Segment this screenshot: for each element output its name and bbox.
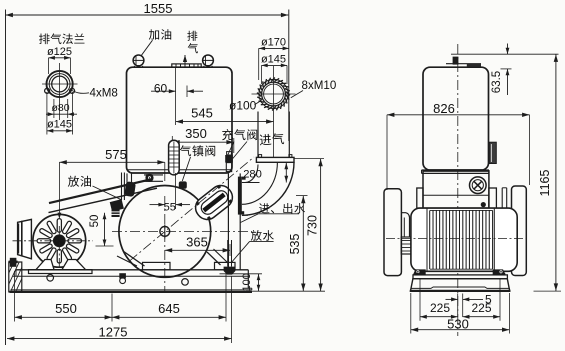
motor centreline vertical	[58, 226, 60, 269]
elbow flange bolts	[259, 155, 262, 158]
dim 365 right extension	[229, 244, 231, 256]
svg-text:8xM10: 8xM10	[302, 79, 337, 92]
drain pipe	[227, 240, 229, 267]
pedestal inner line	[411, 287, 510, 288]
dim o80 extensions	[53, 99, 55, 118]
svg-text:60: 60	[154, 82, 168, 96]
dim 350 line	[172, 141, 234, 143]
spout inner flange	[199, 188, 231, 217]
dim 545 line	[176, 121, 274, 123]
side right plate	[489, 188, 497, 208]
spout dark slot	[202, 193, 225, 213]
svg-text:645: 645	[158, 301, 180, 316]
dim o145 line	[47, 130, 73, 132]
side tank bottom flange	[422, 169, 490, 171]
side centreline	[457, 44, 459, 336]
motor centreline horizontal	[13, 240, 94, 242]
svg-text:63.5: 63.5	[491, 71, 503, 93]
motor hub	[53, 235, 65, 247]
inlet flange crosshair	[273, 66, 275, 157]
dim 55 line	[150, 204, 165, 206]
dim 826 right extension	[529, 115, 531, 185]
dim o170 line	[259, 47, 289, 49]
svg-text:ø145: ø145	[261, 54, 286, 66]
side right bracket2	[501, 188, 503, 210]
ext line tank exhaust centre	[175, 67, 177, 125]
flange F1 middle circle	[49, 74, 70, 95]
side pump housing	[423, 171, 489, 208]
base right edge	[247, 270, 249, 288]
svg-text:826: 826	[433, 101, 455, 116]
leader o100	[255, 100, 262, 105]
svg-text:ø100: ø100	[229, 99, 257, 113]
drum vertical centreline	[164, 196, 166, 291]
oil drain outlet (striped)	[112, 209, 120, 217]
pump drum hub	[160, 227, 170, 237]
base hole left	[47, 275, 54, 282]
motor foot right	[62, 260, 86, 270]
ext line 225 right	[499, 279, 501, 321]
svg-text:350: 350	[185, 126, 207, 141]
svg-text:365: 365	[186, 234, 208, 249]
dim 280 line	[285, 162, 287, 182]
side motor centreline	[386, 238, 527, 240]
base hole right	[182, 279, 189, 286]
motor terminal block	[18, 219, 32, 258]
dim 575 line	[59, 161, 164, 163]
leaders chongqifa	[228, 142, 234, 155]
oil pipe fitting under tank	[144, 174, 163, 176]
svg-text:55: 55	[164, 201, 176, 213]
pump inlet port flange	[238, 177, 242, 215]
dim 63.5 line	[507, 44, 509, 55]
leader qizhenfa	[182, 157, 190, 181]
side tank body	[423, 67, 489, 170]
ext line pedestal bottom right	[534, 290, 562, 292]
label fangyou (drain oil)	[68, 176, 91, 187]
dim 575 right extension	[164, 162, 166, 181]
label paiqifalan (exhaust flange)	[39, 33, 85, 44]
label jin-chushui (water in/out)	[259, 203, 305, 214]
dim o170 left extension	[258, 48, 260, 80]
oil filler cap left	[133, 55, 144, 66]
dim o145b extensions	[261, 65, 263, 84]
svg-text:535: 535	[288, 234, 302, 255]
label paiqi (exhaust) vertical	[187, 31, 197, 41]
base bolt centre	[119, 273, 126, 278]
flange F1 bore circle	[52, 76, 68, 92]
dim 530 line	[411, 329, 510, 331]
dim o80 line	[46, 113, 77, 115]
oil tank body	[127, 67, 233, 173]
dim o125 extensions	[48, 58, 50, 74]
drain cock	[224, 267, 236, 275]
svg-text:550: 550	[55, 301, 77, 316]
belt guard hinge	[146, 174, 153, 181]
anchor bolt head	[10, 258, 17, 267]
leader jiayou	[141, 40, 153, 56]
dim 730 line	[320, 159, 322, 292]
dim 826 left extension	[386, 115, 388, 190]
dim 826 line	[387, 114, 530, 116]
leader 8xM10	[291, 91, 303, 98]
dim 1275 line	[7, 338, 232, 340]
ext line elbow top right	[294, 158, 324, 160]
svg-text:50: 50	[89, 215, 101, 228]
dim 60 line	[151, 90, 176, 92]
flange F1 side lugs	[45, 88, 50, 93]
pump drum circle	[119, 186, 211, 278]
inlet flange bolt ring	[259, 79, 288, 108]
leader 4xM8	[71, 90, 90, 94]
oil drain pipe lines	[121, 173, 123, 201]
ext line 550 left	[14, 271, 16, 322]
ext line base bottom right	[246, 290, 325, 292]
ext line 225 left	[419, 279, 421, 321]
side motor body	[411, 208, 517, 271]
svg-text:225: 225	[471, 301, 491, 315]
dim 1165 line	[555, 54, 557, 291]
spout bolts	[228, 199, 232, 203]
pedestal base	[411, 279, 510, 291]
ext line tank centre into drum	[175, 173, 177, 209]
belt guard lower line	[49, 188, 158, 212]
belt guard upper line	[49, 179, 152, 203]
svg-text:ø125: ø125	[47, 46, 72, 58]
dim 225 right line	[463, 316, 500, 318]
dim 50 bottom extension	[96, 245, 114, 247]
ext line base step	[220, 273, 263, 275]
dim o125 line	[49, 57, 71, 59]
leader fangshui	[250, 240, 274, 242]
side left plate	[417, 188, 423, 208]
svg-text:545: 545	[191, 106, 213, 121]
charge valve body	[225, 155, 233, 163]
dim 100 line	[258, 274, 260, 291]
extension line right of 1555/inlet flange	[288, 10, 290, 142]
label fangshui (drain water)	[251, 230, 274, 241]
label chongqifa (charge valve)	[222, 129, 257, 140]
inlet flange inner circles	[262, 82, 286, 106]
elbow horizontal pipe lines	[242, 182, 260, 184]
pedestal bottom line	[410, 290, 511, 292]
side mount plate	[413, 275, 507, 279]
pump support pad left	[143, 262, 171, 269]
base left edge	[15, 270, 17, 277]
inlet stack walls	[257, 112, 259, 158]
tank support legs left	[126, 173, 128, 185]
oil filler cap right	[203, 55, 214, 66]
dim 63.5 extension	[501, 68, 512, 70]
dim o145b line	[262, 64, 288, 66]
ext line pump centre below	[457, 294, 459, 318]
exhaust direction arrow	[184, 55, 186, 64]
spout outer flange	[191, 181, 237, 224]
pump support strut right	[207, 252, 221, 265]
flange F1 crosshair	[59, 63, 61, 120]
pump support pad right	[215, 262, 236, 269]
oil drain valve lower	[110, 199, 124, 211]
exhaust port plate	[172, 64, 201, 67]
label qizhenfa (gas ballast valve)	[180, 145, 215, 156]
side tank right bracket	[489, 142, 496, 163]
base plate line	[13, 275, 250, 277]
elbow middle arc	[242, 162, 278, 204]
motor mount plate	[29, 270, 93, 274]
left drum disc	[384, 189, 401, 276]
dim o145 extensions	[46, 92, 48, 135]
dim 60 right extension	[186, 86, 188, 98]
svg-text:530: 530	[447, 316, 469, 331]
svg-text:730: 730	[306, 215, 320, 236]
svg-text:575: 575	[105, 147, 127, 162]
side motor foot right	[493, 269, 506, 275]
label jinqi (inlet)	[259, 133, 284, 146]
dim 575 left extension	[58, 162, 60, 213]
dim 535 line	[302, 196, 304, 292]
drum horizontal centreline	[112, 230, 252, 232]
flange F1 outer circle	[47, 71, 73, 97]
left bearing boss	[401, 213, 409, 237]
leader fangyou	[93, 186, 122, 200]
ext line 530 right	[508, 293, 510, 334]
water port column	[227, 173, 229, 269]
ext line 530 left	[410, 293, 412, 334]
motor shaft coupling (ribbed)	[401, 237, 411, 254]
ext line 550/645	[111, 294, 113, 322]
motor end-bell seams	[426, 208, 428, 271]
svg-text:280: 280	[243, 168, 262, 180]
dim 5 arrows	[446, 298, 458, 300]
dim 50 line	[104, 213, 106, 246]
svg-text:4xM8: 4xM8	[90, 87, 118, 100]
dim 1555 line	[6, 14, 289, 16]
motor fan cover circle	[33, 214, 86, 267]
ext line water port	[296, 195, 308, 197]
svg-text:1555: 1555	[144, 1, 173, 16]
side motor foot left	[413, 269, 426, 275]
top extension line	[451, 53, 559, 55]
sight glass	[470, 177, 487, 194]
motor cooling fins	[429, 210, 431, 269]
motor fan blades	[37, 219, 81, 263]
elbow inner arc	[245, 165, 258, 183]
drum diagonal centreline	[130, 157, 255, 261]
oil drain valve upper	[124, 181, 136, 197]
svg-text:1165: 1165	[538, 170, 552, 197]
base bottom lines	[11, 289, 252, 291]
dim 365 line	[165, 249, 230, 251]
gas ballast valve knob	[169, 140, 180, 175]
housing small bolt	[481, 203, 485, 207]
label jiayou (add oil)	[149, 29, 171, 40]
oil tank bottom flange line	[127, 169, 233, 171]
svg-text:1275: 1275	[99, 324, 128, 339]
svg-text:225: 225	[430, 301, 450, 315]
anchor bolt block (hatched)	[9, 262, 22, 292]
gas ballast valve body on pump	[179, 181, 187, 188]
dim 550 line	[15, 316, 113, 318]
dim 225 left line	[420, 316, 458, 318]
elbow outer arc	[242, 162, 294, 215]
motor foot left	[36, 260, 54, 270]
right drum disc	[512, 186, 527, 276]
dim 350 extensions	[171, 136, 173, 141]
extension line left (overall)	[5, 10, 7, 346]
ext line motor centre below	[462, 294, 464, 318]
ext line 1275 right	[231, 276, 233, 343]
svg-text:ø170: ø170	[261, 36, 286, 48]
pump support strut left	[123, 251, 145, 266]
ext line 645 right	[225, 271, 227, 322]
leader jin-chushui	[258, 213, 299, 215]
elbow flange plate	[256, 157, 294, 162]
svg-text:ø145: ø145	[47, 119, 72, 131]
side filler nozzle	[453, 57, 459, 65]
dim 645 line	[112, 316, 226, 318]
base top line	[16, 269, 248, 271]
